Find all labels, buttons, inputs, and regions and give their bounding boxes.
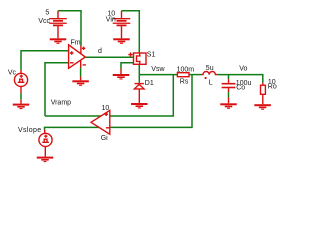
svg-text:100m: 100m: [177, 67, 195, 74]
ground below Fm: [72, 80, 89, 85]
wire Rs to L: [189, 74, 201, 76]
Fm supply + mark: [82, 47, 85, 50]
diode D1 body: [134, 84, 144, 89]
diode D1 anode stub: [138, 89, 140, 103]
svg-text:D1: D1: [145, 80, 154, 87]
resistor Ro: [261, 85, 266, 94]
ground below Vin: [113, 38, 130, 44]
source Vslope circle: [39, 133, 52, 146]
svg-text:Vsw: Vsw: [151, 66, 165, 73]
Gi - input mark: [106, 127, 109, 129]
Fm - input mark: [70, 62, 74, 64]
wire Co bottom toward ground: [228, 92, 230, 97]
svg-text:Rs: Rs: [180, 78, 189, 85]
wire Fm negative supply to ground: [80, 68, 82, 77]
wire Vin top to S1 drain: [122, 11, 140, 53]
svg-text:5u: 5u: [206, 65, 214, 72]
diode D1 cathode bar: [135, 83, 144, 84]
svg-text:Vc: Vc: [8, 70, 17, 77]
S1 control + mark: [128, 52, 132, 56]
svg-text:Fm: Fm: [71, 40, 81, 47]
battery Vin plates: [113, 18, 131, 26]
wire Rs left sense down to Gi + input: [110, 75, 174, 116]
ground below Ro: [254, 104, 271, 110]
inductor L polarity dot: [205, 77, 207, 79]
wire S1 source down to Vsw node: [138, 64, 140, 74]
ground below S1 control: [113, 74, 130, 80]
Fm negative supply pin stub: [80, 60, 82, 68]
svg-text:d: d: [98, 48, 102, 55]
Vslope step waveform glyph: [42, 139, 49, 142]
battery Vcc pin stubs: [57, 11, 59, 39]
svg-text:L: L: [209, 79, 213, 86]
svg-text:Vslope: Vslope: [18, 127, 42, 134]
wire Rs right sense down to Gi - input: [110, 75, 192, 128]
Vslope + mark: [44, 135, 47, 138]
capacitor Co plates: [222, 83, 236, 88]
Fm positive supply pin stub: [80, 46, 82, 55]
Vslope pin stubs: [44, 130, 47, 157]
battery Vcc plates: [49, 18, 67, 26]
svg-text:S1: S1: [147, 51, 156, 58]
wire Vsw node to Rs: [139, 74, 177, 76]
wire node d : Fm output to S1 control +: [85, 56, 133, 58]
Gi + input mark: [104, 112, 108, 116]
wire Vramp node to Fm - input: [45, 63, 69, 116]
inductor L: [201, 72, 218, 75]
Vc pin stubs: [20, 70, 22, 104]
wire S1 control - to local ground: [121, 63, 134, 69]
ground below Vslope: [37, 157, 54, 163]
switch S1 body: [134, 53, 147, 64]
resistor Rs: [177, 73, 189, 77]
wire Gi output+ toward Vramp vertical: [45, 115, 109, 117]
capacitor Co pin stubs: [228, 79, 230, 103]
svg-text:5: 5: [45, 10, 49, 17]
ground below Vcc: [50, 38, 67, 44]
source Vc circle: [14, 73, 27, 86]
op-amp comparator Fm: [69, 45, 86, 69]
wire L to corner above Ro: [218, 75, 263, 83]
svg-text:Vramp: Vramp: [51, 100, 71, 107]
svg-text:Vo: Vo: [239, 65, 247, 72]
switch S1 internal contact: [137, 53, 141, 64]
svg-text:Co: Co: [236, 85, 245, 92]
Fm supply - mark: [83, 64, 86, 66]
Fm ground pin stub: [80, 77, 82, 81]
wire Vcc top to Fm positive supply: [58, 11, 81, 46]
svg-text:Ro: Ro: [268, 83, 277, 90]
svg-text:Gi: Gi: [101, 135, 108, 142]
Fm + input mark: [70, 51, 74, 55]
wire Vc bottom mid segment: [20, 93, 22, 100]
ground below Vc: [13, 104, 30, 110]
ground below D1: [131, 103, 148, 109]
wire Gi output- toward Vslope: [45, 127, 110, 129]
ground below Co: [220, 103, 237, 108]
svg-text:Vin: Vin: [106, 16, 116, 23]
svg-text:10: 10: [102, 105, 110, 112]
Ro bottom pin stub: [262, 94, 264, 104]
wire Vc to Fm + input: [21, 51, 69, 70]
Vc + mark: [20, 75, 23, 78]
resistor Ro top pin stub: [262, 83, 264, 86]
svg-text:Vcc: Vcc: [38, 18, 50, 25]
wire Vo node down to Co: [228, 75, 230, 80]
S1 control ground pin stub: [120, 69, 122, 75]
amplifier Gi body: [91, 110, 110, 134]
wire Vsw node down to D1 cathode: [138, 75, 140, 83]
Vc step waveform glyph: [18, 79, 25, 82]
battery Vin pin stubs: [121, 11, 123, 39]
